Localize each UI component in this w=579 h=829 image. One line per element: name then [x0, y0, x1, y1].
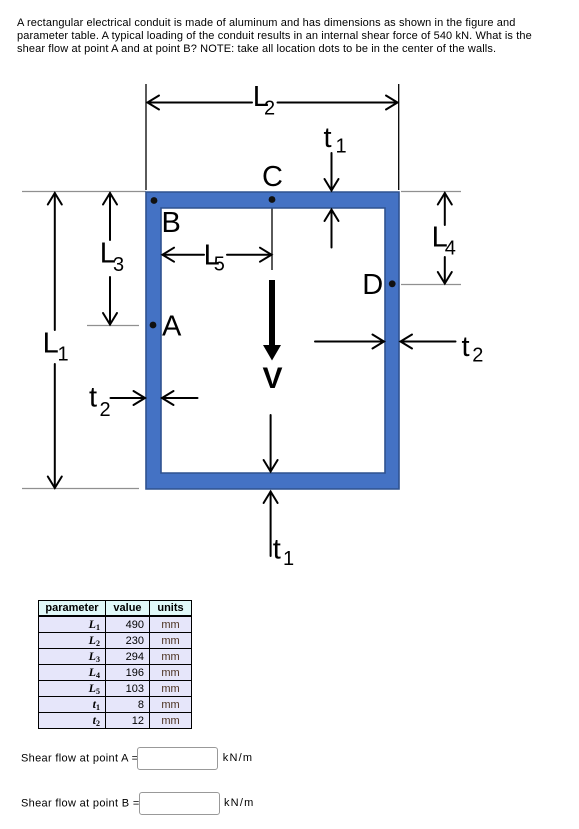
svg-text:V: V: [263, 362, 283, 395]
svg-text:4: 4: [445, 238, 456, 260]
svg-text:D: D: [362, 269, 383, 301]
svg-text:B: B: [162, 207, 181, 239]
svg-text:5: 5: [214, 254, 225, 276]
svg-text:A: A: [162, 310, 182, 342]
svg-text:C: C: [262, 161, 283, 193]
svg-text:L: L: [43, 328, 59, 360]
svg-text:t: t: [462, 331, 470, 363]
svg-text:1: 1: [58, 344, 69, 366]
svg-text:3: 3: [113, 254, 124, 276]
svg-text:t: t: [273, 534, 281, 566]
svg-text:1: 1: [336, 136, 347, 158]
svg-text:t: t: [89, 382, 97, 414]
svg-text:2: 2: [100, 399, 111, 421]
svg-text:1: 1: [283, 548, 294, 570]
svg-text:t: t: [324, 122, 332, 154]
svg-text:2: 2: [472, 345, 483, 367]
svg-text:2: 2: [264, 97, 275, 119]
